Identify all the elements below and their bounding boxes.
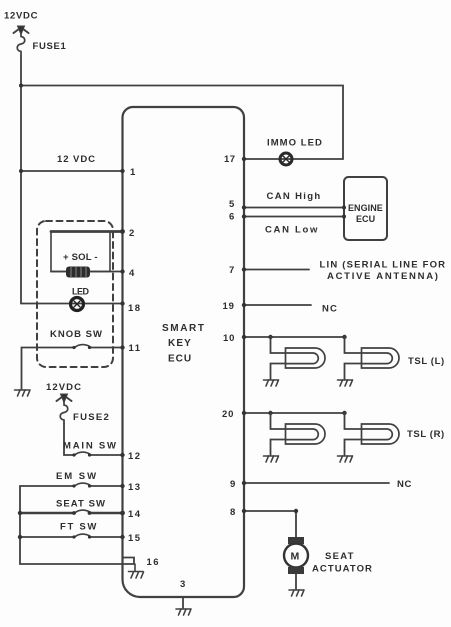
svg-text:SMART: SMART <box>162 323 206 334</box>
ground (ant 1R) <box>264 456 279 462</box>
svg-text:KEY: KEY <box>168 338 192 349</box>
svg-text:18: 18 <box>128 303 142 314</box>
wire pin 3 stub <box>182 597 184 608</box>
ground (motor) <box>289 590 304 596</box>
svg-text:19: 19 <box>223 301 235 312</box>
ground (pin 3) <box>176 609 191 615</box>
engine ECU box <box>344 177 387 240</box>
svg-text:CAN Low: CAN Low <box>265 225 319 236</box>
wire: top horizontal branch to IMMO LED feed <box>21 86 343 160</box>
node junction pin8 <box>294 509 298 513</box>
pin number labels <box>128 154 300 590</box>
antenna coil TSL(L) outer <box>345 337 400 379</box>
solenoid coil SOL <box>66 267 90 278</box>
wire pin 19 NC <box>244 304 311 306</box>
svg-text:13: 13 <box>128 482 142 493</box>
solenoid box <box>51 232 110 272</box>
svg-text:5: 5 <box>229 199 235 210</box>
svg-text:FUSE1: FUSE1 <box>33 41 67 52</box>
svg-text:8: 8 <box>230 507 235 518</box>
svg-text:EM SW: EM SW <box>56 471 98 482</box>
svg-text:CAN High: CAN High <box>267 191 322 202</box>
wire pin 18 <box>21 303 123 305</box>
wire pin 6 CAN Low <box>244 216 344 218</box>
svg-text:ACTIVE ANTENNA): ACTIVE ANTENNA) <box>327 271 440 282</box>
wire pin 1 (12VDC) <box>21 170 123 172</box>
wire pin 4 <box>51 271 123 273</box>
wire: left bus to pin 16 <box>20 486 134 564</box>
svg-text:12VDC: 12VDC <box>4 11 38 22</box>
svg-text:15: 15 <box>128 533 142 544</box>
svg-text:NC: NC <box>397 479 412 490</box>
svg-text:12: 12 <box>128 451 142 462</box>
svg-text:7: 7 <box>229 265 234 276</box>
svg-text:20: 20 <box>222 409 234 420</box>
svg-text:4: 4 <box>129 268 135 279</box>
LED knob illumination <box>71 298 84 311</box>
svg-text:12VDC: 12VDC <box>46 382 82 393</box>
wire pin 15 with FT SW <box>20 536 123 538</box>
svg-text:FUSE2: FUSE2 <box>73 412 110 423</box>
node junction pin20 B <box>342 411 346 415</box>
svg-text:1: 1 <box>130 167 136 178</box>
svg-text:11: 11 <box>129 343 142 354</box>
svg-text:MAIN SW: MAIN SW <box>63 441 118 452</box>
svg-text:FT SW: FT SW <box>60 522 98 533</box>
svg-text:LIN (SERIAL LINE FOR: LIN (SERIAL LINE FOR <box>320 260 447 271</box>
svg-text:TSL (L): TSL (L) <box>408 356 445 367</box>
svg-text:17: 17 <box>224 154 236 165</box>
svg-text:ACTUATOR: ACTUATOR <box>312 564 373 575</box>
ground (pin 16) <box>129 564 144 578</box>
svg-text:SEAT: SEAT <box>325 551 355 562</box>
svg-text:10: 10 <box>223 333 235 344</box>
ground (ant 2R) <box>338 456 353 462</box>
switch KNOB SW <box>74 345 90 348</box>
wire pin 11 with KNOB SW <box>90 347 123 349</box>
motor M seat actuator <box>284 537 308 589</box>
node junction pin20 A <box>268 411 272 415</box>
wire pin 5 CAN High <box>244 207 344 209</box>
wire pin 17 <box>244 158 343 160</box>
dashed box knob assembly <box>37 221 113 367</box>
power feed 12VDC lower <box>57 394 72 403</box>
svg-text:ENGINE: ENGINE <box>348 203 383 213</box>
svg-text:14: 14 <box>128 509 142 520</box>
ground (ant 2L) <box>338 380 353 386</box>
wire pin 12 <box>90 454 123 456</box>
wire: left main vertical from fuse to pin18 corner <box>20 56 22 304</box>
svg-text:TSL (R): TSL (R) <box>407 429 445 440</box>
svg-text:2: 2 <box>129 228 134 239</box>
svg-text:KNOB SW: KNOB SW <box>50 329 103 340</box>
svg-text:12 VDC: 12 VDC <box>57 154 96 165</box>
terminal dots on ECU edges <box>18 84 346 540</box>
svg-text:M: M <box>291 551 300 563</box>
wire pin 2 (bold) <box>51 230 123 233</box>
wire pin 20 <box>244 412 345 414</box>
wire pin 7 LIN <box>244 269 309 271</box>
svg-text:9: 9 <box>230 479 235 490</box>
svg-text:3: 3 <box>180 579 185 590</box>
svg-text:6: 6 <box>229 212 234 223</box>
node junction pin10 A <box>268 335 272 339</box>
svg-text:ECU: ECU <box>168 354 192 365</box>
node junction pin10 B <box>342 335 346 339</box>
wire from FUSE2 to pin 12 <box>64 423 74 455</box>
svg-text:ECU: ECU <box>356 214 375 224</box>
wire pin 9 NC <box>244 482 389 484</box>
wire pin 13 with EM SW <box>20 485 123 487</box>
svg-text:LED: LED <box>72 287 90 297</box>
svg-text:IMMO LED: IMMO LED <box>267 138 323 149</box>
svg-text:NC: NC <box>322 304 338 315</box>
switch MAIN SW <box>74 452 90 455</box>
svg-text:16: 16 <box>147 557 161 568</box>
LED immobilizer indicator <box>280 153 292 165</box>
ground (knob sw) <box>15 390 31 396</box>
svg-text:+ SOL -: + SOL - <box>63 252 98 263</box>
wire pin 10 <box>244 336 345 338</box>
antenna coil TSL(R) outer <box>345 413 400 455</box>
power feed 12VDC top <box>14 26 29 35</box>
fuse FUSE1 <box>17 33 25 56</box>
wire pin 8 <box>244 511 296 537</box>
smart key ECU box <box>123 107 245 597</box>
fuse FUSE2 <box>60 402 68 423</box>
antenna coil TSL(R) inner <box>271 413 326 455</box>
ground (ant 1L) <box>264 380 279 386</box>
wire pin 14 with SEAT SW (bold) <box>20 512 123 515</box>
svg-text:SEAT SW: SEAT SW <box>56 499 106 510</box>
antenna coil TSL(L) inner <box>271 337 326 379</box>
